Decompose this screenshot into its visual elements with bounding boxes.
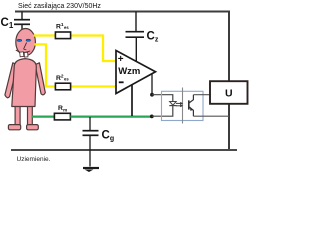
wire (yellow) R1es output to + input [71, 36, 116, 62]
yellow wire: head to R2es [34, 44, 55, 86]
wire: amp output down [151, 74, 153, 95]
wire: collector to U box [193, 94, 210, 96]
svg-text:U: U [225, 88, 233, 100]
right foot [27, 125, 39, 130]
wire: amp ground reference down to green net [131, 85, 133, 116]
left eye [17, 39, 22, 41]
torso [12, 59, 37, 107]
resistor R2es [55, 83, 70, 90]
LED (optocoupler emitter diode) [170, 102, 177, 106]
head [16, 29, 36, 56]
U box (meter) [210, 81, 248, 104]
human body figure [5, 29, 45, 130]
capacitor Cz [126, 12, 145, 63]
green wire: Rm to junction [70, 115, 150, 117]
wire (yellow) R2es output to - input [71, 85, 116, 87]
green wire: leg to Rm [32, 115, 55, 117]
wire: right rail upper (rail to U box) [228, 12, 230, 82]
light arrows [176, 102, 183, 107]
emitter arrow [190, 107, 193, 111]
wire: emitter to right rail [193, 115, 229, 117]
svg-text:+: + [118, 54, 124, 65]
optocoupler box [162, 91, 204, 120]
resistor Rm [54, 113, 70, 120]
junction node (output) [150, 93, 154, 97]
svg-text:Uziemienie.: Uziemienie. [17, 156, 51, 163]
left arm [5, 63, 18, 98]
ground line (earth surface) [11, 149, 237, 151]
teeth [20, 52, 24, 57]
wire: output to LED anode [152, 95, 173, 102]
phototransistor [189, 95, 194, 117]
nose [24, 43, 27, 50]
right arm [35, 63, 45, 95]
svg-text:Wzm: Wzm [118, 66, 140, 77]
left foot [8, 125, 20, 130]
wire: right rail lower (U box to ground line) [228, 104, 230, 151]
op-amp U1 (Wzm) [116, 51, 156, 94]
right eye [26, 39, 30, 41]
mouth [16, 50, 30, 53]
wire: mains top rail [15, 11, 230, 13]
capacitor C1 [14, 12, 30, 34]
yellow wire: head to R1es and to op-amp + input [34, 34, 56, 36]
junction node (green net to LED cathode) [150, 115, 154, 119]
earth ground symbol [83, 167, 99, 169]
capacitor Cg [83, 131, 99, 167]
optocoupler divider [182, 88, 184, 124]
capacitor Cg wire from green net [89, 117, 91, 131]
svg-text:Sieć zasilająca 230V/50Hz: Sieć zasilająca 230V/50Hz [18, 3, 101, 10]
wire: junction to LED cathode [152, 106, 173, 116]
right leg [28, 104, 33, 125]
resistor R1es [55, 32, 70, 39]
left leg [15, 104, 20, 125]
